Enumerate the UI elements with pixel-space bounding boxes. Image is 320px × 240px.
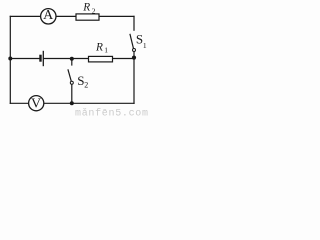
wire bottom-left to voltmeter — [10, 102, 28, 104]
svg-text:R: R — [95, 41, 103, 53]
wire left vertical — [9, 16, 11, 103]
wire right vertical lower — [133, 59, 135, 104]
resistor R2 — [76, 2, 99, 21]
svg-text:2: 2 — [84, 81, 88, 90]
ammeter A1 — [41, 8, 56, 24]
svg-text:2: 2 — [92, 6, 96, 15]
wire middle: junction to battery — [10, 58, 39, 60]
svg-text:1: 1 — [104, 45, 108, 54]
wire top-left horizontal — [10, 15, 40, 17]
wire R2 to top-right corner — [99, 15, 134, 17]
resistor R1 — [89, 41, 113, 62]
wire S2 branch upper stub — [71, 59, 73, 66]
battery BT1 — [41, 51, 44, 66]
svg-text:1: 1 — [143, 41, 147, 50]
wire switch S1 contact to node C — [133, 52, 135, 59]
svg-text:V: V — [31, 97, 41, 112]
node A (left junction dot) — [8, 57, 12, 61]
wire battery to node B — [44, 58, 72, 60]
node B (S2 top junction dot) — [70, 57, 74, 61]
wire ammeter to R2 — [56, 15, 76, 17]
switch S1 — [130, 31, 147, 51]
wire voltmeter to bottom-right corner — [44, 102, 134, 104]
node C (S1 bottom junction dot) — [132, 56, 136, 60]
voltmeter V1 — [29, 96, 44, 112]
wire node B to R1 — [72, 58, 89, 60]
svg-text:mǎnfēn5.com: mǎnfēn5.com — [75, 108, 149, 120]
svg-text:A: A — [43, 8, 54, 23]
wire right vertical upper (to switch S1) — [133, 16, 135, 30]
wire R1 to node C — [113, 58, 135, 60]
svg-text:R: R — [82, 2, 90, 14]
wire S2 contact to bottom wire — [71, 84, 73, 103]
switch S2 — [68, 69, 88, 89]
node D (S2 bottom junction dot) — [70, 101, 74, 105]
